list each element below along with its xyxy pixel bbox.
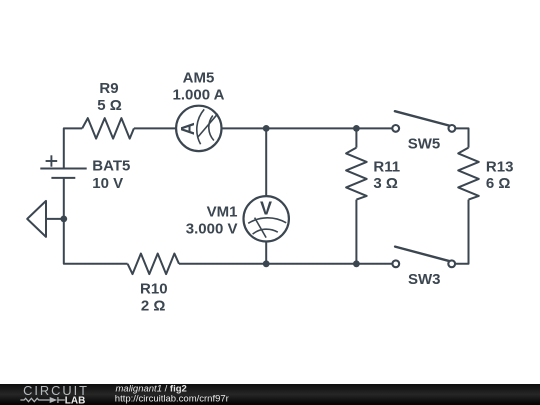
node junction bottom middle (VM1 branch): [263, 260, 270, 267]
svg-text:VM1: VM1: [207, 204, 238, 221]
node junction bottom (R11 branch): [353, 260, 360, 267]
wire bottom-left from battery negative down and right to R10: [64, 178, 128, 264]
svg-text:R11: R11: [373, 158, 400, 175]
label R9 value: [97, 80, 122, 114]
switch SW5: [392, 111, 455, 132]
svg-text:5 Ω: 5 Ω: [97, 97, 122, 114]
node junction ground: [60, 216, 67, 223]
label BAT5 value: [92, 158, 130, 193]
svg-text:http://circuitlab.com/crnf97r: http://circuitlab.com/crnf97r: [115, 393, 229, 404]
svg-text:V: V: [260, 198, 272, 218]
ground: [27, 201, 64, 237]
resistor R10: [128, 254, 179, 275]
voltmeter VM1: [244, 196, 289, 241]
ammeter AM5: [176, 106, 221, 151]
wire SW5 to R13 top: [455, 128, 468, 147]
svg-text:2 Ω: 2 Ω: [141, 298, 166, 315]
node junction top middle (VM1 branch): [263, 125, 270, 132]
label SW3: [408, 271, 441, 288]
wire ammeter to SW5 left terminal: [222, 127, 393, 129]
svg-text:1.000 A: 1.000 A: [173, 87, 225, 104]
svg-text:LAB: LAB: [65, 395, 86, 405]
svg-text:AM5: AM5: [183, 70, 215, 87]
svg-text:A: A: [178, 122, 198, 135]
wire R13 bottom to SW3 right terminal: [455, 200, 469, 264]
svg-text:SW3: SW3: [408, 271, 441, 288]
switch SW3: [392, 247, 455, 268]
svg-text:BAT5: BAT5: [92, 158, 130, 175]
svg-text:R13: R13: [486, 158, 514, 175]
svg-text:R9: R9: [99, 80, 118, 97]
svg-text:10 V: 10 V: [92, 175, 123, 192]
svg-text:6 Ω: 6 Ω: [486, 175, 511, 192]
svg-text:R10: R10: [140, 281, 168, 298]
wire bottom from R10 to SW3: [179, 263, 393, 265]
svg-text:3.000 V: 3.000 V: [186, 220, 238, 237]
battery BAT5: [40, 155, 86, 178]
resistor R11: [346, 148, 367, 200]
wire R9 to ammeter AM5: [134, 127, 176, 129]
node junction top (R11 branch): [353, 125, 360, 132]
wire VM1 bottom: [265, 242, 267, 264]
resistor R13: [458, 148, 479, 200]
label R11 value: [373, 158, 400, 192]
label AM5 value: [173, 70, 225, 104]
label R10 value: [140, 281, 168, 315]
svg-text:3 Ω: 3 Ω: [373, 175, 398, 192]
label SW5: [408, 136, 441, 153]
wire top-left from battery positive up and right to R9: [64, 128, 82, 168]
wire VM1 top: [265, 128, 267, 196]
wire R11 top: [355, 128, 357, 147]
label VM1 value: [186, 204, 238, 238]
footer bar: [0, 383, 540, 405]
label R13 value: [486, 158, 514, 192]
resistor R9: [82, 118, 134, 139]
svg-text:SW5: SW5: [408, 136, 441, 153]
wire R11 bottom: [355, 200, 357, 264]
